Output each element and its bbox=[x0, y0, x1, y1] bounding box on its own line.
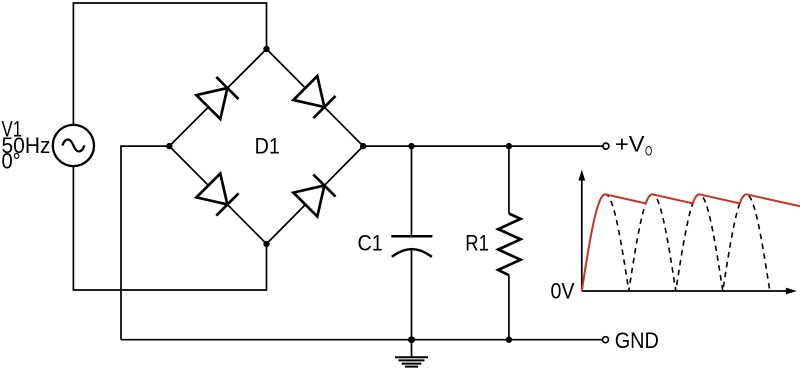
terminal GND open circle bbox=[603, 337, 609, 343]
svg-text:+V: +V bbox=[615, 132, 645, 157]
wire bridge side left-bottom bbox=[169, 146, 266, 244]
svg-text:O: O bbox=[645, 143, 652, 158]
svg-text:0V: 0V bbox=[551, 278, 575, 303]
wire C1 top stub bbox=[411, 146, 413, 235]
wire R1 top stub bbox=[508, 146, 510, 213]
wire bridge side top-right bbox=[267, 49, 364, 146]
diode D1 bottom-right bbox=[293, 174, 335, 216]
diode D1 bottom-left bbox=[196, 174, 238, 216]
node C1 top junction bbox=[408, 143, 414, 149]
wire R1 bottom stub bbox=[508, 275, 510, 340]
svg-text:0°: 0° bbox=[2, 148, 21, 173]
ground bbox=[395, 340, 428, 367]
resistor R1 bbox=[498, 214, 520, 276]
node R1 top junction bbox=[506, 143, 512, 149]
node bridge left junction bbox=[166, 143, 172, 149]
AC source V1 bbox=[53, 125, 94, 166]
node bridge top junction bbox=[263, 46, 269, 52]
svg-text:GND: GND bbox=[615, 328, 659, 353]
svg-text:R1: R1 bbox=[465, 230, 489, 255]
graph y-axis bbox=[578, 170, 585, 292]
dashed rectified sine waveform bbox=[582, 194, 770, 291]
svg-text:C1: C1 bbox=[358, 230, 383, 255]
node bridge bottom junction bbox=[263, 241, 269, 247]
wire from source bottom to bridge bottom node bbox=[73, 166, 266, 290]
graph x-axis bbox=[582, 288, 797, 295]
wire bridge side left-top bbox=[169, 49, 266, 146]
terminal +Vo open circle bbox=[603, 143, 609, 149]
node bridge right junction bbox=[360, 143, 366, 149]
wire top output rail from bridge right node to +Vo terminal bbox=[363, 145, 603, 147]
svg-text:D1: D1 bbox=[255, 133, 280, 158]
wire from bridge left node to ground rail bbox=[121, 146, 169, 340]
diode D1 top-left bbox=[196, 77, 238, 119]
wire bridge side bottom-right bbox=[267, 146, 364, 244]
wire bottom ground rail bbox=[121, 339, 603, 341]
red smoothed ripple curve bbox=[582, 194, 800, 291]
diode D1 top-right bbox=[293, 76, 335, 118]
capacitor C1 bbox=[391, 236, 432, 257]
wire from source top to bridge top node bbox=[73, 3, 266, 125]
node R1 bottom junction bbox=[506, 337, 512, 343]
node C1 bottom junction bbox=[408, 336, 415, 343]
wire C1 bottom stub bbox=[411, 250, 413, 340]
